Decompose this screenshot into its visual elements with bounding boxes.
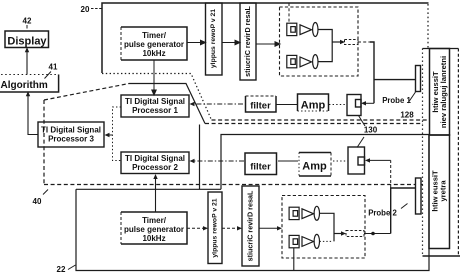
svg-text:40: 40: [33, 197, 42, 206]
svg-text:Amp: Amp: [302, 161, 327, 173]
dashed drop wire into laser 1a: [288, 3, 290, 23]
patient box bottom edge: [423, 255, 460, 257]
svg-text:ylppus rewoP v 21: ylppus rewoP v 21: [210, 9, 217, 68]
svg-text:Timer/: Timer/: [142, 216, 167, 225]
wire laser2b down to box22 edge: [293, 248, 295, 271]
wire to probe 1: [374, 79, 416, 81]
tissue box 1: [430, 49, 450, 136]
svg-text:130: 130: [364, 126, 378, 135]
svg-text:Probe 1: Probe 1: [382, 96, 411, 105]
wires lasers 2 to combiner: [320, 213, 335, 241]
svg-text:TI Digital Signal: TI Digital Signal: [125, 154, 185, 163]
svg-text:22: 22: [57, 265, 66, 274]
box 20 bottom dotted edge: [102, 74, 212, 121]
svg-text:pulse generator: pulse generator: [124, 40, 184, 49]
svg-text:Algorithm: Algorithm: [1, 80, 48, 91]
svg-text:Display: Display: [7, 36, 47, 48]
wire laser driver2 to laser box2: [259, 227, 278, 229]
dash-dot wire filter1 to DSP1: [194, 103, 243, 105]
wire algorithm to display: [26, 51, 28, 75]
amp 2: [299, 152, 331, 154]
probe 2 bar: [416, 178, 422, 214]
tissue 1 text: [431, 56, 449, 212]
dashed return wire to photodiode 2: [390, 160, 392, 188]
12 v power supply 1: [206, 3, 223, 75]
svg-text:42: 42: [23, 17, 32, 26]
svg-text:128: 128: [400, 111, 414, 120]
DSP 2: [121, 152, 189, 174]
arrow into coupler 2: [341, 231, 346, 235]
solid fiber trunk wire probe 1: [370, 42, 374, 103]
photodiode 1: [347, 95, 361, 116]
algorithm box: [0, 74, 59, 76]
fiber coupler 2: [346, 231, 364, 237]
trunk vertical wire probe 2: [391, 188, 416, 234]
box 20 bottom dashed edge right section: [212, 119, 428, 121]
arrow into coupler 1: [340, 40, 345, 44]
svg-text:20: 20: [81, 5, 90, 14]
dashed wire timer2 to power supply2: [187, 227, 204, 229]
laser diode 1a: [287, 23, 341, 69]
laser driver circuits 2: [242, 186, 259, 266]
box 22 outline: [76, 188, 221, 190]
svg-text:yretra: yretra: [439, 180, 448, 202]
svg-text:filter: filter: [250, 101, 271, 112]
dotted wire amp1 to photodiode1: [329, 104, 347, 106]
laser diode 2b: [289, 235, 299, 247]
amp 1: [298, 94, 329, 111]
svg-text:pulse generator: pulse generator: [124, 225, 184, 234]
patient box top edge: [423, 48, 459, 50]
photodiode 2: [348, 147, 365, 174]
box 20 right edge (dotted): [427, 4, 429, 49]
dashed wire power supply2 to laser driver 2: [222, 227, 238, 229]
dash-dot wire filter2 to DSP2: [194, 160, 244, 162]
dotted wire amp2 to photodiode2: [333, 160, 348, 162]
laser dashed box 2: [282, 196, 365, 259]
12 v power supply 2: [208, 192, 222, 264]
fiber coupler 1: [345, 40, 359, 45]
laser driver circuits 1: [240, 3, 256, 80]
svg-text:niev raluguj lanretni: niev raluguj lanretni: [439, 56, 448, 128]
box 40 dashed bottom edge: [44, 184, 423, 186]
timer/pulse generator 2: [121, 212, 187, 244]
svg-text:Processor 1: Processor 1: [132, 106, 178, 115]
svg-text:filter: filter: [250, 162, 271, 173]
svg-text:TI Digital Signal: TI Digital Signal: [41, 126, 101, 135]
dotted wire laser 2b: [320, 240, 333, 242]
wires lasers to combiner point: [318, 30, 332, 62]
dotted connector DSP1/DSP2 to DSP3: [113, 107, 122, 161]
svg-text:TI Digital Signal: TI Digital Signal: [125, 97, 185, 106]
box 40 top edge solid section: [129, 84, 205, 124]
wire coupler2 to probe trunk: [364, 233, 391, 235]
box 22 upper right edge: [221, 135, 429, 190]
svg-text:10kHz: 10kHz: [142, 49, 165, 58]
timer/pulse generator 1: [121, 27, 187, 60]
DSP 1: [121, 95, 189, 117]
box 40 dashed outline left: [43, 100, 45, 185]
DSP 3: [38, 122, 104, 147]
display box: [5, 31, 49, 48]
probe 1 bar: [416, 66, 421, 92]
patient dashed box right edge: [457, 49, 459, 257]
patient dotted box left edge: [422, 49, 424, 257]
laser diode 1b: [287, 55, 297, 67]
laser dashed box 1: [280, 7, 359, 76]
wire filter2 to amp2: [278, 160, 298, 162]
laser diode 2a: [289, 206, 341, 248]
wire laser driver 1 to laser box 1: [256, 43, 276, 45]
svg-text:41: 41: [49, 63, 58, 72]
wire DSP3 to Algorithm: [28, 95, 38, 135]
svg-text:10kHz: 10kHz: [142, 234, 165, 243]
tissue box 2: [429, 135, 450, 249]
svg-text:Amp: Amp: [301, 100, 326, 112]
wire to photodiode 1: [365, 102, 374, 104]
svg-text:Probe 2: Probe 2: [368, 209, 397, 218]
wire timer2 up to DSP2: [155, 178, 157, 213]
dashed fiber wire out of coupler 1: [358, 41, 370, 43]
wire filter1 to amp1: [276, 104, 297, 106]
svg-text:Processor 2: Processor 2: [132, 163, 178, 172]
box 40 dashed diagonal from Algorithm: [44, 84, 129, 101]
box 40 top dashed edge right section: [205, 123, 423, 125]
svg-text:ylppus rewoP v 21: ylppus rewoP v 21: [212, 198, 219, 257]
filter 1: [246, 95, 277, 97]
filter 2: [245, 153, 277, 175]
wire timer1 to power supply 1: [152, 40, 280, 95]
fiber junction dot: [371, 232, 375, 236]
wire power supply 1 to laser driver 1: [222, 42, 237, 44]
svg-text:Timer/: Timer/: [142, 31, 167, 40]
svg-text:Processor 3: Processor 3: [48, 135, 94, 144]
wire timer1 down to DSP1: [153, 60, 155, 92]
box 22 notch vertical: [199, 125, 201, 190]
svg-text:stiucriC revirD resaL: stiucriC revirD resaL: [243, 6, 252, 77]
svg-text:stiucriC revirD resaL: stiucriC revirD resaL: [246, 190, 255, 261]
box 20 top and left edges: [102, 3, 429, 73]
